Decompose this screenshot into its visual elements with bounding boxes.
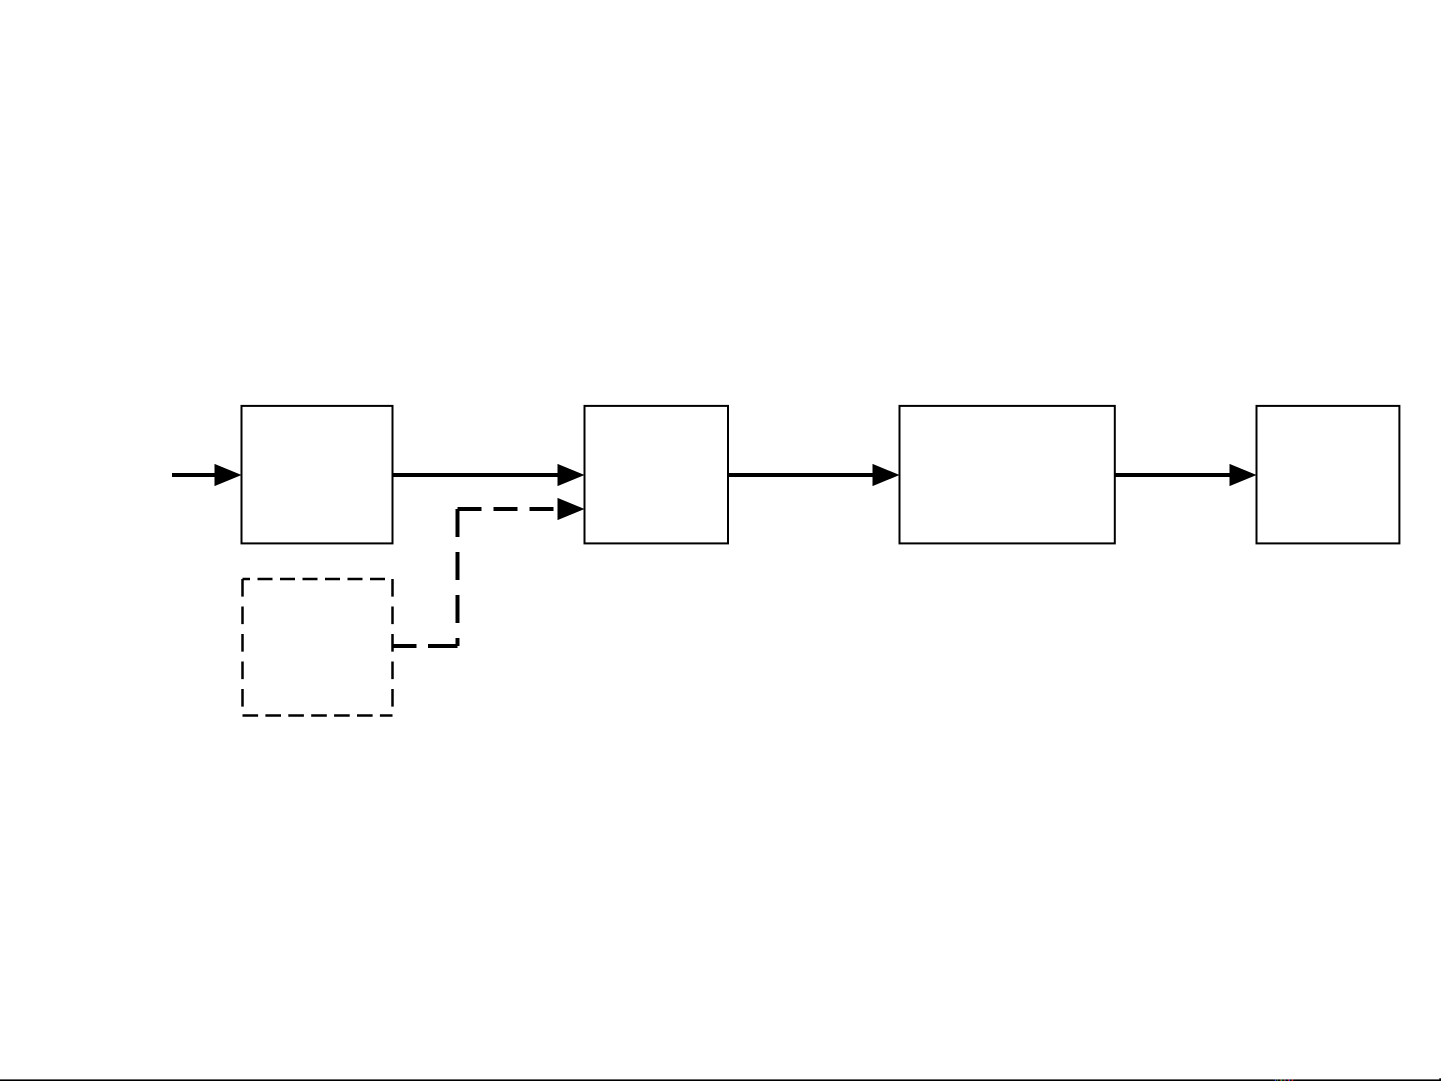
block 4 (solid box) bbox=[1257, 406, 1400, 544]
bottom edge bar (cut-off element at screen bottom) bbox=[0, 1079, 1441, 1081]
tiny colored subpixel marks on bottom bar bbox=[1275, 1080, 1276, 1081]
dashed box top edge bbox=[243, 578, 393, 581]
wire block1 to block2 shaft bbox=[393, 473, 563, 477]
dashed box right edge bbox=[391, 579, 394, 716]
block 2 (solid box) bbox=[585, 406, 729, 544]
dashed wire vertical run bbox=[456, 509, 460, 646]
block 3 (solid box, wide) bbox=[900, 406, 1115, 544]
input arrowhead into block 1 bbox=[215, 464, 242, 486]
block 1 (solid box) bbox=[242, 406, 393, 544]
arrowhead into block 2 bbox=[558, 464, 585, 486]
arrowhead into block 3 bbox=[873, 464, 900, 486]
dashed wire top run from corner to block 2 bbox=[458, 507, 561, 511]
arrowhead into block 4 bbox=[1230, 464, 1257, 486]
wire input arrow shaft bbox=[172, 473, 222, 477]
dashed box bottom edge bbox=[243, 714, 393, 717]
dashed wire bottom run from dashed box to corner bbox=[393, 644, 458, 648]
wire block3 to block4 shaft bbox=[1115, 473, 1234, 477]
dashed wire arrowhead into block 2 bbox=[558, 498, 585, 520]
dashed box left edge bbox=[241, 579, 244, 716]
wire block2 to block3 shaft bbox=[728, 473, 877, 477]
bottom-right corner step bbox=[1439, 1078, 1441, 1081]
